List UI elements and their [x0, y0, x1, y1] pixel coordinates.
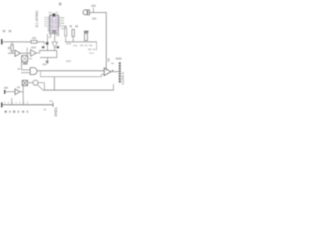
- buffer gate G3: [15, 89, 23, 95]
- GND bus (y=104.5): [1, 100, 54, 110]
- buffer gate G1: [15, 50, 20, 56]
- IC left pins: [48, 17, 50, 31]
- vertical part label text (left of IC): [35, 10, 39, 28]
- vertical x=11.5 to bus: [10, 98, 13, 105]
- wire mid (y=50.5): [36, 46, 59, 53]
- connector CN1 (right edge): [116, 58, 122, 84]
- wire G2 output (y=70.5) long: [37, 69, 104, 72]
- svg-text:GND1: GND1: [54, 107, 58, 117]
- relay box K2: [17, 80, 28, 88]
- svg-text:4 3 2 1 0 9 8: 4 3 2 1 0 9 8: [4, 102, 29, 105]
- bottom designator dots: [5, 111, 29, 113]
- label text blobs mid area: [43, 60, 72, 65]
- transistor Q1: [28, 80, 45, 90]
- IC U1 body: [49, 3, 62, 34]
- AND gate G2: [30, 68, 37, 75]
- speaker LS1 (top right): [83, 5, 96, 20]
- wire speaker to corner (y=12.5) and down x=106: [90, 12, 107, 71]
- svg-text:IC1 AT89C: IC1 AT89C: [35, 10, 39, 28]
- terminal J2 (left, y=91.5): [4, 87, 15, 94]
- faint text rows below right wire: [66, 43, 95, 54]
- resistor R1 (horizontal): [31, 37, 37, 43]
- wire buffer input (y=53): [8, 52, 15, 55]
- resistor R3 (vertical, right of IC): [70, 25, 78, 42]
- vertical net label at bus end: [54, 107, 58, 117]
- vertical x=23 box K2 to bus: [22, 86, 25, 105]
- wire (y=90) long: [43, 84, 114, 91]
- connector vertical label: [121, 72, 125, 85]
- terminal J1 (left top): [1, 30, 12, 45]
- resistor R2 (vertical, pullup): [8, 42, 13, 53]
- op-amp U2 (bottom right): [104, 58, 118, 75]
- wire from G1 output: [20, 48, 30, 58]
- buffer gate G4 (second in row): [31, 47, 37, 57]
- relay box K1: [22, 56, 32, 65]
- IC right pins: [58, 17, 60, 27]
- IC left pin labels: [44, 17, 47, 27]
- wire box1 down to gate inputs: [18, 62, 31, 73]
- wire y=41.5 right segment: [65, 41, 97, 50]
- wire mid (y=57.5): [40, 51, 57, 65]
- wire (y=76.5) long with corner up to op-amp lower input: [40, 71, 104, 91]
- capacitor C2 (vertical, left of R3): [64, 26, 67, 42]
- IC bottom pin 2 and inverter triangle pointing down: [49, 34, 60, 51]
- resistor R4 (vertical on y41.5 wire): [84, 31, 88, 41]
- wire net IN (y=42): [3, 40, 32, 43]
- IC right pin labels: [61, 17, 64, 29]
- svg-text:CONN 8: CONN 8: [121, 72, 124, 85]
- wire R1 to IC pin junction: [37, 34, 48, 51]
